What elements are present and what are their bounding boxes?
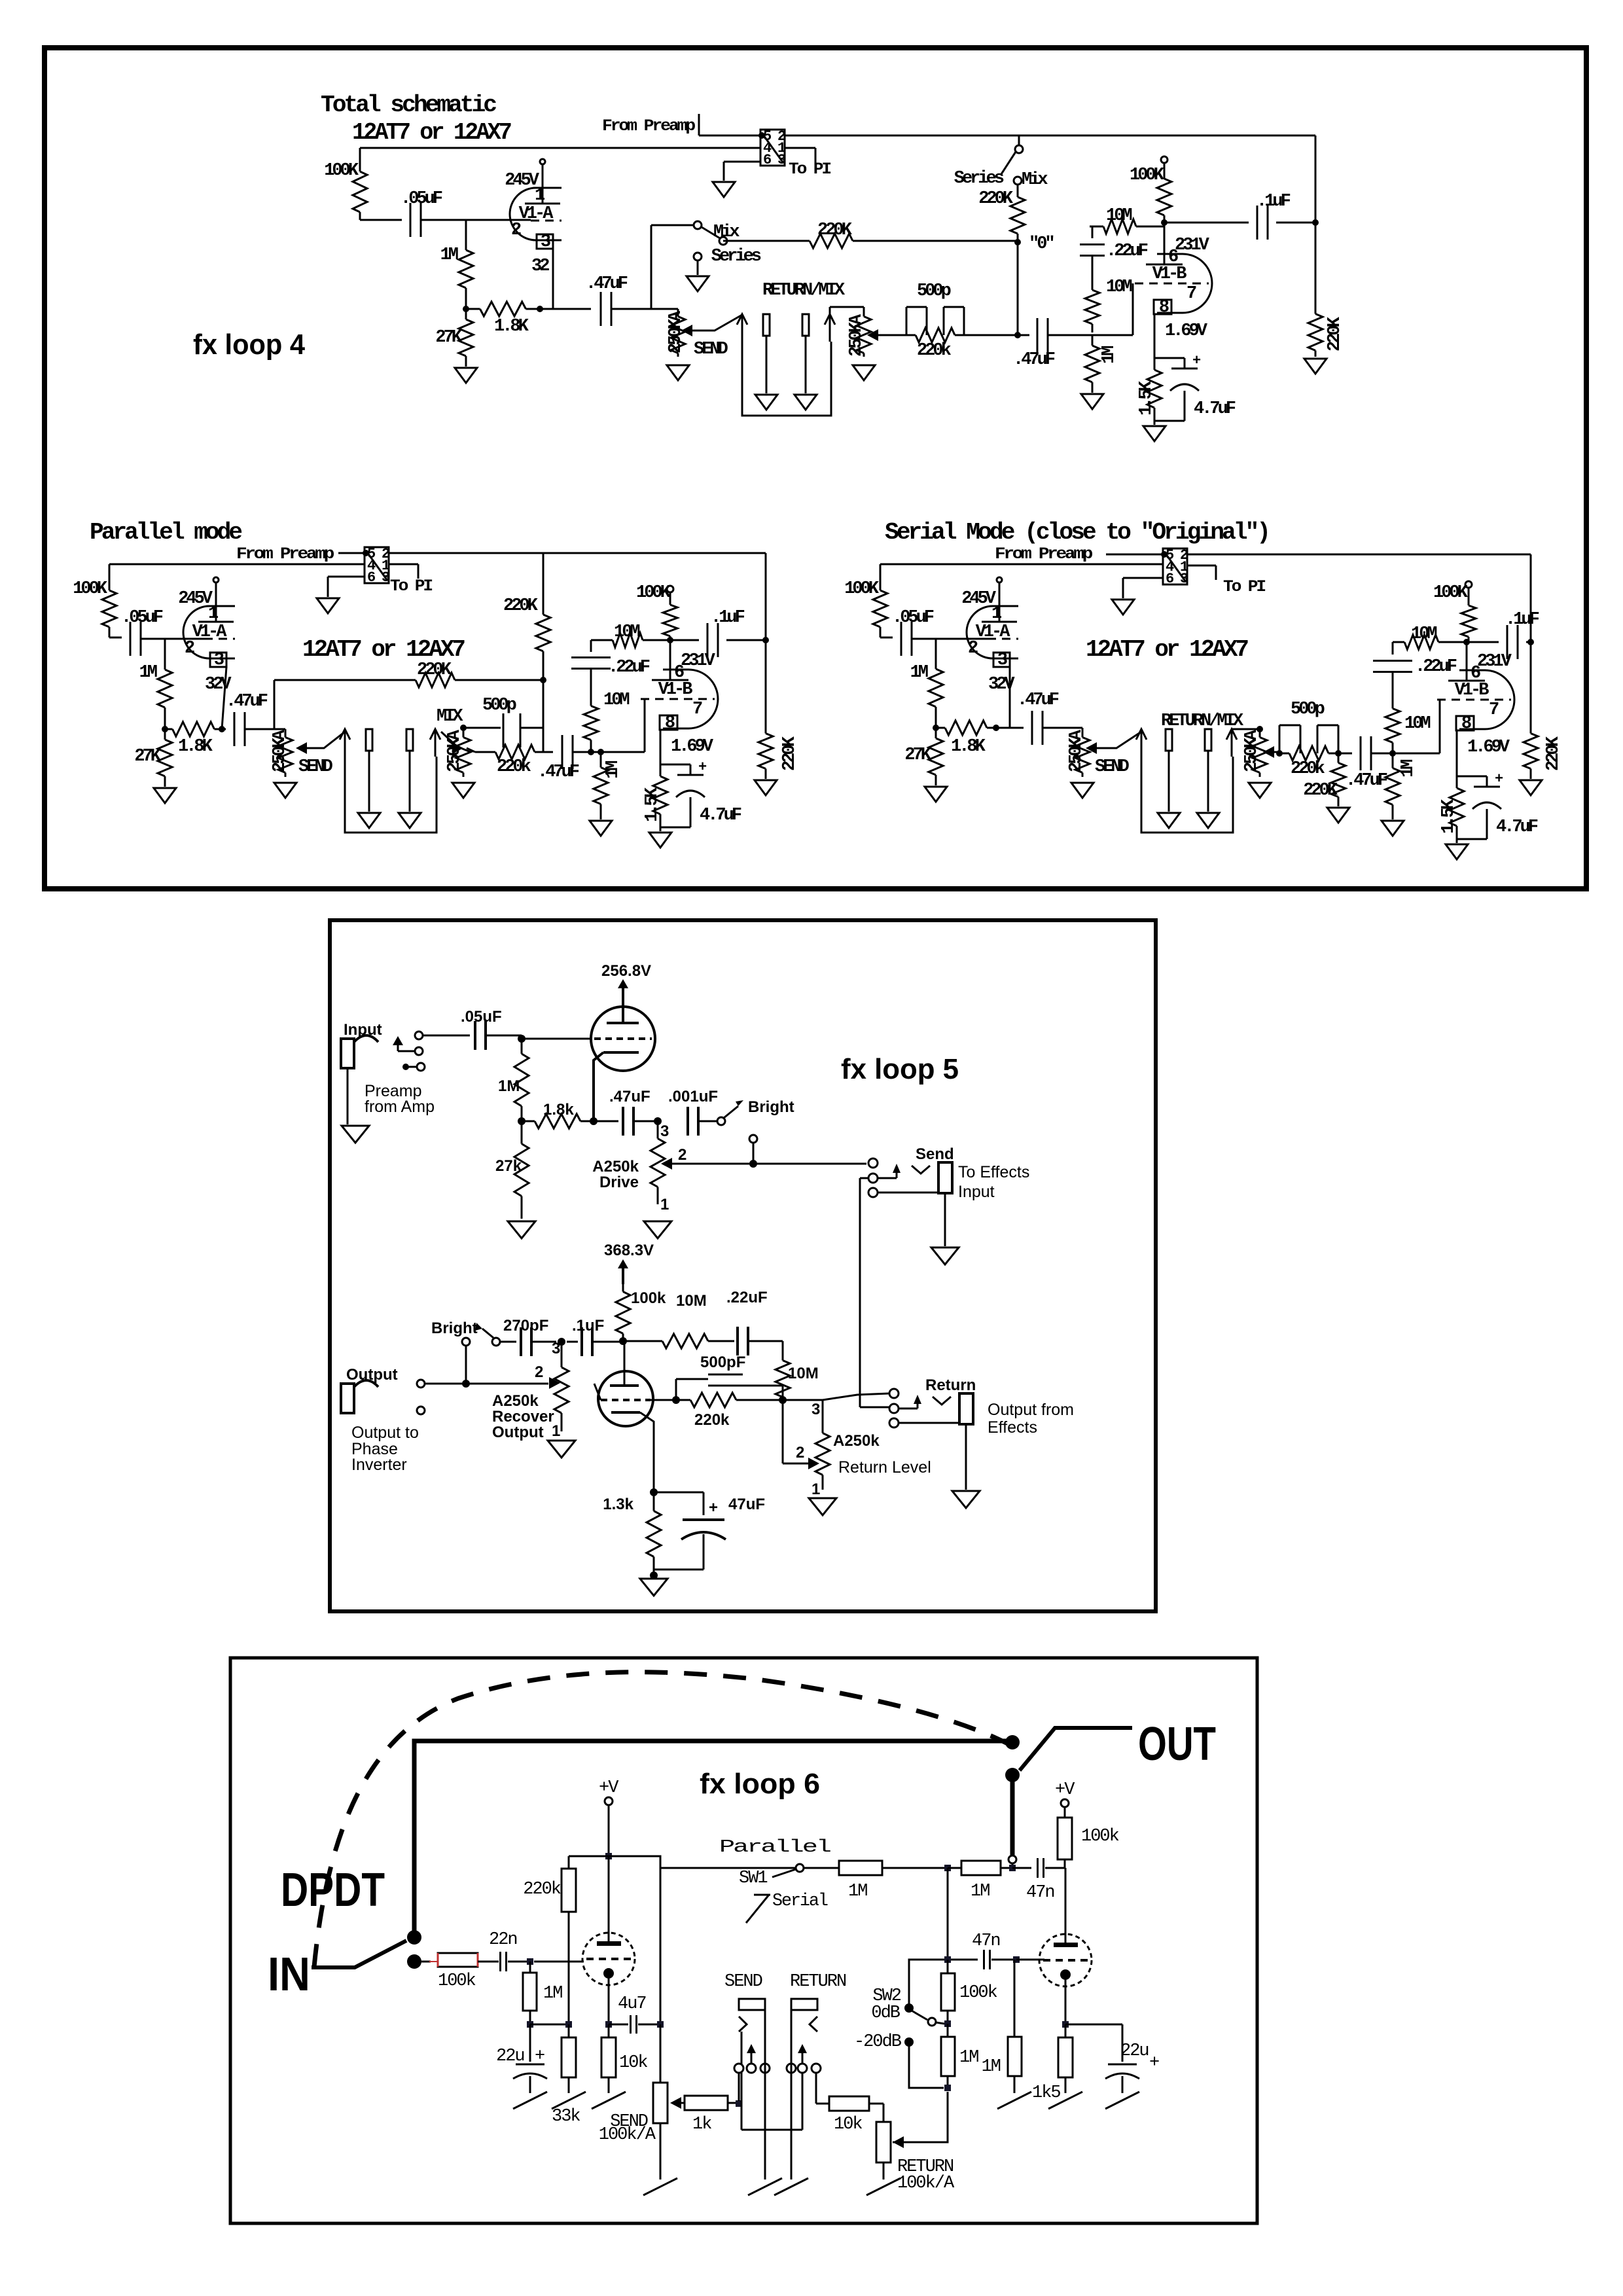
svg-text:Send: Send (916, 1145, 954, 1163)
svg-text:4.7uF: 4.7uF (1496, 817, 1538, 837)
svg-text:.001uF: .001uF (668, 1088, 718, 1105)
resistor 220K (mix feed) (723, 240, 785, 242)
node 220K tap (serial) (1335, 750, 1342, 757)
svg-text:RETURN: RETURN (790, 1972, 846, 1992)
svg-text:SW1: SW1 (739, 1869, 767, 1888)
ground below RETURN jack (serial) (1197, 813, 1219, 828)
svg-text:+: + (709, 1499, 718, 1516)
svg-text:-20dB: -20dB (854, 2032, 902, 2052)
tube V1-B (serial) (1485, 670, 1514, 729)
svg-text:Total schematic: Total schematic (321, 92, 496, 118)
resistor 220k (fx6) (569, 1856, 609, 1857)
svg-text:+: + (1495, 771, 1503, 787)
jack Send contacts (868, 1158, 878, 1168)
svg-text:1.69V: 1.69V (1467, 738, 1510, 757)
svg-text:1M: 1M (1399, 760, 1418, 778)
wire pin6 ground (serial) (1123, 577, 1163, 579)
wire U loop fx6 (741, 2129, 802, 2131)
resistor 27K (parallel) (164, 729, 166, 740)
svg-text:.22uF: .22uF (1106, 242, 1148, 261)
jack SEND body (763, 314, 770, 336)
wire grid riser (parallel) (644, 699, 646, 752)
resistor 100k (fx5 recovery) (622, 1284, 624, 1292)
svg-text:33k: 33k (552, 2107, 580, 2126)
svg-text:Mix: Mix (713, 223, 740, 242)
potentiometer A250k Return Level (822, 1418, 824, 1433)
node bias rail right (565, 2021, 572, 2028)
combo 500p/220k (parallel) (503, 713, 505, 747)
node 4u7 right (657, 2021, 664, 2028)
resistor 220K to V1-A (parallel) (274, 679, 416, 681)
wire cathode V1-A (parallel) (222, 667, 226, 729)
node 1M/1.8K (serial) (933, 725, 939, 731)
ground below SEND pot (serial) (1071, 783, 1094, 798)
resistor 1.8K (cathode) (466, 308, 480, 310)
svg-text:SEND: SEND (1095, 757, 1130, 777)
wire grid to feedback node (651, 1399, 676, 1401)
wire U loop (parallel) (345, 757, 437, 833)
wire pin2 rail right (serial) (1187, 554, 1531, 556)
jack Return tip notch (933, 1397, 951, 1405)
resistor 1M (grid leak) (465, 220, 467, 229)
svg-text:1M: 1M (848, 1882, 867, 1901)
svg-text:220K: 220K (1325, 316, 1345, 351)
switch Series/Mix top (1018, 135, 1020, 145)
svg-text:250KA: 250KA (1067, 729, 1086, 772)
jack Return body (959, 1393, 973, 1424)
svg-text:A250k: A250k (592, 1158, 639, 1175)
potentiometer A250k Recover Output (561, 1342, 563, 1349)
svg-text:1M: 1M (982, 2057, 1001, 2077)
connector (serial) (1163, 548, 1187, 584)
resistor 10M horizontal (parallel) (591, 639, 612, 641)
resistor 100k divider (947, 1960, 949, 1973)
wire rail corner down to 100K (359, 148, 361, 164)
ground below 27K (serial) (925, 787, 947, 802)
node output (parallel) (762, 637, 769, 643)
capacitor .1uF (fx5) (567, 1341, 578, 1343)
node 220K tee (parallel) (540, 677, 546, 683)
svg-text:220K: 220K (780, 736, 800, 771)
svg-text:.47uF: .47uF (586, 274, 628, 294)
tube V1-A (serial) (967, 606, 993, 658)
resistor 220K shunt (serial) (1338, 753, 1340, 763)
svg-text:7: 7 (1186, 284, 1196, 304)
combo 500p/220k (serial) (1279, 753, 1289, 755)
resistor 1M grid leak (parallel) (600, 752, 602, 768)
svg-text:2: 2 (796, 1444, 804, 1462)
ground below Return jack (952, 1491, 980, 1508)
node plate junction tube1 (605, 1853, 612, 1859)
svg-text:1M: 1M (959, 2048, 978, 2068)
svg-text:1.3k: 1.3k (603, 1496, 633, 1513)
node junction 1M/1.8K/27K (463, 306, 469, 312)
resistor 100K V1-B (serial) (1465, 581, 1472, 588)
svg-text:250KA: 250KA (1242, 729, 1262, 772)
svg-text:500p: 500p (482, 696, 516, 715)
wire .47uF to SEND pot (611, 308, 678, 310)
svg-text:27k: 27k (495, 1157, 522, 1175)
resistor 10M vertical (parallel) (590, 669, 592, 694)
resistor 27K (serial) (935, 728, 937, 738)
switch Mix/Series (694, 221, 702, 229)
wire to Return jack (823, 1393, 889, 1400)
resistor 1.8k (fx5) (522, 1121, 535, 1122)
wire cathode node to .47uF (594, 1121, 618, 1122)
svg-text:Parallel: Parallel (719, 1838, 830, 1857)
node return (serial) (1276, 750, 1283, 757)
svg-text:To PI: To PI (1223, 577, 1266, 596)
svg-text:1k5: 1k5 (1032, 2083, 1060, 2103)
cathode network V1-B (1154, 314, 1156, 353)
svg-text:10M: 10M (788, 1365, 819, 1382)
svg-text:1M: 1M (1099, 346, 1119, 364)
svg-text:MIX: MIX (437, 707, 463, 726)
svg-text:1.8k: 1.8k (543, 1101, 574, 1119)
node grid junction (parallel) (588, 749, 594, 755)
resistor 100k (fx6 right) (1058, 1818, 1072, 1859)
wire IN to 100k (421, 1961, 431, 1963)
ground below MIX pot (parallel) (452, 783, 474, 798)
svg-text:22u: 22u (496, 2047, 524, 2066)
svg-text:500pF: 500pF (700, 1354, 745, 1371)
svg-text:.22uF: .22uF (726, 1289, 768, 1306)
svg-text:100K: 100K (324, 161, 359, 181)
node tube2 grid leak (1013, 1956, 1020, 1963)
resistor 1M grid leak (serial) (1392, 753, 1394, 768)
svg-text:220k: 220k (917, 341, 952, 361)
capacitor .47uF (return coupling) (1037, 318, 1039, 352)
svg-text:7: 7 (1489, 700, 1499, 720)
svg-text:Output from: Output from (988, 1401, 1074, 1419)
svg-text:2: 2 (535, 1363, 543, 1381)
resistor 220K (series link) (1017, 185, 1019, 188)
ground below 22u (513, 2092, 547, 2109)
svg-text:1.69V: 1.69V (1165, 321, 1208, 341)
svg-text:10M: 10M (614, 622, 639, 642)
wire plate junction loop to 4u7 (609, 1856, 660, 2024)
contact -20dB (904, 2037, 914, 2047)
potentiometer RETURN 250KA (serial) (1257, 726, 1263, 732)
svg-text:V1-B: V1-B (1152, 264, 1187, 284)
jack RETURN body (parallel) (406, 729, 413, 751)
svg-text:4.7uF: 4.7uF (1194, 399, 1236, 419)
svg-text:27K: 27K (904, 745, 931, 765)
capacitor .22uF (1092, 226, 1094, 238)
svg-text:220K: 220K (417, 660, 452, 680)
svg-text:.05uF: .05uF (401, 189, 442, 209)
svg-text:6: 6 (1166, 571, 1173, 587)
svg-text:1.5K: 1.5K (1439, 798, 1459, 834)
svg-text:Serial: Serial (772, 1892, 828, 1911)
frame box fx loop 6 (230, 1658, 1257, 2223)
tube V1-A (parallel) (183, 606, 209, 658)
tube triode fx6 input (582, 1933, 635, 1985)
svg-text:220K: 220K (503, 596, 539, 616)
svg-text:4.7uF: 4.7uF (700, 806, 741, 825)
ground below 27K (parallel) (154, 788, 176, 803)
wire return tip down (815, 2073, 817, 2104)
svg-text:To PI: To PI (390, 577, 433, 596)
jack Return contacts (889, 1389, 899, 1398)
wire jack to MIX pot wiper (parallel) (441, 732, 459, 748)
jack RETURN fx6 (791, 1999, 817, 2010)
svg-text:1M: 1M (498, 1077, 520, 1095)
jack RETURN body (802, 314, 809, 336)
svg-text:27K: 27K (435, 328, 462, 348)
switch SW2 (904, 2003, 914, 2013)
svg-text:32: 32 (531, 257, 549, 276)
node output (1312, 219, 1319, 226)
wire input to .05uF (423, 1035, 470, 1037)
ground below MIX pot (853, 365, 875, 380)
ground below Drive pot (644, 1221, 671, 1238)
ground below 220K output (parallel) (755, 780, 777, 795)
wire 220K vert top (parallel) (543, 553, 544, 586)
jack SEND (tip arrow) (737, 314, 747, 325)
svg-text:RETURN/MIX: RETURN/MIX (762, 281, 846, 300)
ground below Series throw (697, 260, 699, 275)
resistor 1M SW1 a (804, 1867, 839, 1869)
wire cathode tube1 (608, 1979, 610, 2023)
wire cap to grid node (486, 1035, 522, 1037)
wire to .47uF (553, 308, 591, 310)
ground below SEND pot (fx6) (643, 2178, 677, 2195)
svg-text:220k: 220k (694, 1411, 730, 1429)
wire from preamp to connector (serial) (1106, 554, 1163, 556)
ground below RETURN jack (794, 395, 817, 410)
svg-text:100K: 100K (844, 579, 880, 599)
svg-text:231V: 231V (681, 651, 716, 671)
wiper SEND pot (670, 2097, 681, 2109)
wire SW2 0dB branch (909, 1960, 944, 2004)
svg-text:100K: 100K (1130, 166, 1165, 185)
svg-text:220k: 220k (497, 757, 531, 777)
ground below Return pot (809, 1498, 836, 1515)
capacitor .001uF (687, 1107, 689, 1136)
potentiometer SEND 100k/A (660, 2024, 662, 2083)
capacitor .1uF (output coupling) (1164, 222, 1249, 224)
frame box fx loop 4 (45, 48, 1586, 889)
arrow B+ tube2 (622, 1268, 624, 1284)
svg-text:100K: 100K (636, 583, 671, 603)
resistor 100K (serial V1-A) (880, 564, 882, 580)
svg-text:250KA: 250KA (270, 729, 290, 772)
wire grid riser (serial) (1393, 753, 1440, 755)
jack Send body (938, 1162, 952, 1193)
capacitor .47uF (serial) (1010, 727, 1024, 729)
wire to .05uF (serial) (880, 637, 893, 639)
resistor 1M tube2 grid leak (1014, 1960, 1016, 2037)
node bias rail left (527, 2021, 533, 2028)
svg-text:256.8V: 256.8V (601, 962, 651, 980)
jack SEND body (parallel) (366, 729, 372, 751)
wire pin2 rail right (parallel) (389, 552, 766, 554)
node divider top (944, 1956, 951, 1963)
tube V1-A (total) (510, 188, 536, 240)
resistor 1k (681, 2102, 685, 2104)
svg-text:100k/A: 100k/A (897, 2174, 955, 2193)
svg-text:500p: 500p (917, 281, 951, 301)
wire 10M vert riser (782, 1341, 784, 1357)
resistor 10k (608, 2024, 610, 2037)
svg-text:3: 3 (660, 1122, 669, 1140)
svg-text:10M: 10M (1404, 714, 1430, 734)
wire B+ rail left to connector pin4 (360, 147, 760, 149)
svg-text:100k: 100k (959, 1983, 997, 2003)
svg-text:+: + (1192, 353, 1201, 369)
svg-text:Output: Output (492, 1424, 544, 1441)
svg-text:10M: 10M (676, 1292, 707, 1310)
resistor 100K (V1-B plate load) (1161, 156, 1168, 163)
capacitor 47n (plate) (1012, 1867, 1031, 1869)
svg-text:Series: Series (954, 169, 1004, 188)
potentiometer SEND (serial) (1082, 728, 1084, 733)
svg-text:+: + (698, 759, 707, 776)
capacitor .05uF (fx5) (474, 1021, 476, 1050)
tube triode fx6 output (1039, 1934, 1092, 1986)
wire grid riser (1132, 283, 1134, 335)
resistor 1M (V1-B grid leak) (1092, 335, 1094, 346)
capacitor .05uF (410, 203, 412, 237)
jack SEND fx6 (739, 1999, 765, 2010)
jack SEND body (serial) (1166, 729, 1172, 751)
wire grid tube1 (534, 1961, 584, 1963)
node grid right (fx5) (779, 1396, 787, 1404)
svg-text:Parallel mode: Parallel mode (90, 519, 241, 546)
wire cathode V1-A down (552, 249, 554, 309)
svg-text:10k: 10k (619, 2053, 647, 2073)
svg-text:1.8K: 1.8K (951, 737, 986, 757)
resistor 1.8K (serial) (936, 727, 945, 729)
svg-text:270pF: 270pF (503, 1317, 548, 1335)
svg-text:IN: IN (268, 1948, 310, 2001)
svg-text:Bright: Bright (431, 1319, 478, 1337)
svg-text:220k: 220k (523, 1880, 561, 1899)
svg-text:fx loop 4: fx loop 4 (193, 329, 305, 361)
capacitor .22uF (parallel) (590, 640, 592, 652)
wire divider riser (947, 1868, 949, 1960)
capacitor .05uF (serial) (901, 622, 902, 656)
resistor 10M vertical (fx5) (782, 1357, 784, 1361)
svg-text:Output to: Output to (351, 1424, 419, 1442)
svg-text:6: 6 (763, 152, 771, 168)
capacitor 47uF (fx5) (654, 1492, 704, 1494)
svg-text:47n: 47n (972, 1931, 1000, 1951)
wire IN thick path to OUT (414, 1741, 1012, 1934)
wire send bypass vertical (860, 1177, 869, 1179)
jack SEND tip arrow (parallel) (340, 729, 350, 740)
capacitor .22uF (serial) (1392, 642, 1394, 655)
svg-text:From Preamp: From Preamp (602, 117, 695, 135)
svg-text:12AT7 or 12AX7: 12AT7 or 12AX7 (352, 119, 511, 146)
ground below 33k (552, 2092, 586, 2109)
resistor 1M divider (947, 2024, 949, 2037)
ground below Send jack (931, 1247, 959, 1265)
potentiometer SEND (parallel) (285, 729, 287, 733)
resistor 220K vertical (parallel) (543, 586, 544, 615)
svg-text:1M: 1M (440, 245, 458, 265)
wiper RETURN pot (893, 2136, 904, 2148)
node 0 junction (1014, 332, 1021, 338)
node grid (fx5) (518, 1035, 526, 1043)
svg-text:1: 1 (660, 1196, 669, 1213)
svg-text:10M: 10M (1106, 278, 1132, 297)
node grid junction (serial) (1389, 750, 1396, 757)
svg-text:100K: 100K (1433, 583, 1469, 603)
cathode network V1-B (serial) (1456, 730, 1458, 771)
resistor 10M (vertical) (1092, 256, 1094, 281)
svg-text:250KA: 250KA (666, 310, 686, 353)
svg-text:To PI: To PI (789, 160, 831, 179)
resistor 100K (parallel V1-A) (109, 564, 111, 580)
ground below connector (serial) (1112, 600, 1134, 615)
wire to node 3 (633, 1121, 658, 1122)
svg-text:From Preamp: From Preamp (236, 545, 334, 564)
svg-text:100k/A: 100k/A (599, 2125, 656, 2145)
node pot top (fx5) (558, 1338, 565, 1346)
svg-text:+: + (1149, 2053, 1159, 2073)
svg-text:10k: 10k (834, 2115, 862, 2134)
svg-text:A250k: A250k (833, 1432, 880, 1450)
svg-text:OUT: OUT (1138, 1718, 1216, 1770)
ground below 1M (serial) (1382, 821, 1404, 836)
ground below 1k5 (1048, 2092, 1082, 2109)
svg-text:+V: +V (1055, 1780, 1075, 1800)
wire jack to RETURN pot (serial) (1232, 728, 1260, 730)
svg-text:Input: Input (958, 1183, 995, 1201)
svg-text:100k: 100k (631, 1289, 666, 1307)
svg-text:.47uF: .47uF (609, 1088, 651, 1105)
resistor 220K output (serial) (1530, 642, 1532, 723)
svg-text:.05uF: .05uF (121, 608, 163, 628)
terminal +V left (605, 1797, 613, 1805)
svg-text:1M: 1M (543, 1984, 562, 2003)
svg-text:100k: 100k (438, 1971, 476, 1991)
svg-text:1.5K: 1.5K (643, 787, 662, 822)
ground below RETURN jack (parallel) (399, 813, 421, 828)
capacitor .47uF second (serial) (1338, 753, 1352, 755)
ground below RETURN pot (serial) (1249, 783, 1271, 798)
capacitor 22u electrolytic (529, 2024, 531, 2062)
wire B+ rail (parallel) (109, 564, 365, 565)
svg-text:+V: +V (599, 1778, 619, 1798)
capacitor 4u7 (609, 2024, 628, 2026)
resistor 1M (parallel) (164, 639, 166, 648)
wire output jack to node (425, 1383, 466, 1385)
svg-text:1.5K: 1.5K (1137, 380, 1156, 416)
svg-text:.22uF: .22uF (1415, 657, 1457, 677)
ground below SEND pot (parallel) (274, 783, 296, 798)
node cathode tube2 (1062, 2021, 1069, 2028)
wire RETURN jack to MIX pot (829, 307, 831, 314)
svg-text:DPDT: DPDT (281, 1864, 385, 1916)
wire riser to Mix switch (651, 225, 652, 309)
cathode network V1-B (parallel) (660, 730, 662, 759)
ground below 1.3k (640, 1579, 668, 1596)
svg-text:47n: 47n (1026, 1883, 1054, 1903)
capacitor .47uF (fx5) (622, 1107, 624, 1136)
wire U loop (serial) (1141, 757, 1233, 833)
node bright (fx5) (462, 1380, 470, 1388)
wire pin6 to ground (724, 161, 760, 163)
ground below RETURN pot (fx6) (866, 2178, 901, 2195)
svg-text:1.8K: 1.8K (178, 737, 213, 757)
jack Send tip notch (912, 1166, 930, 1174)
wire pin1 to To PI (parallel) (389, 564, 418, 565)
svg-text:.47uF: .47uF (1013, 350, 1055, 370)
capacitor .22uF (fx5) (736, 1327, 739, 1355)
